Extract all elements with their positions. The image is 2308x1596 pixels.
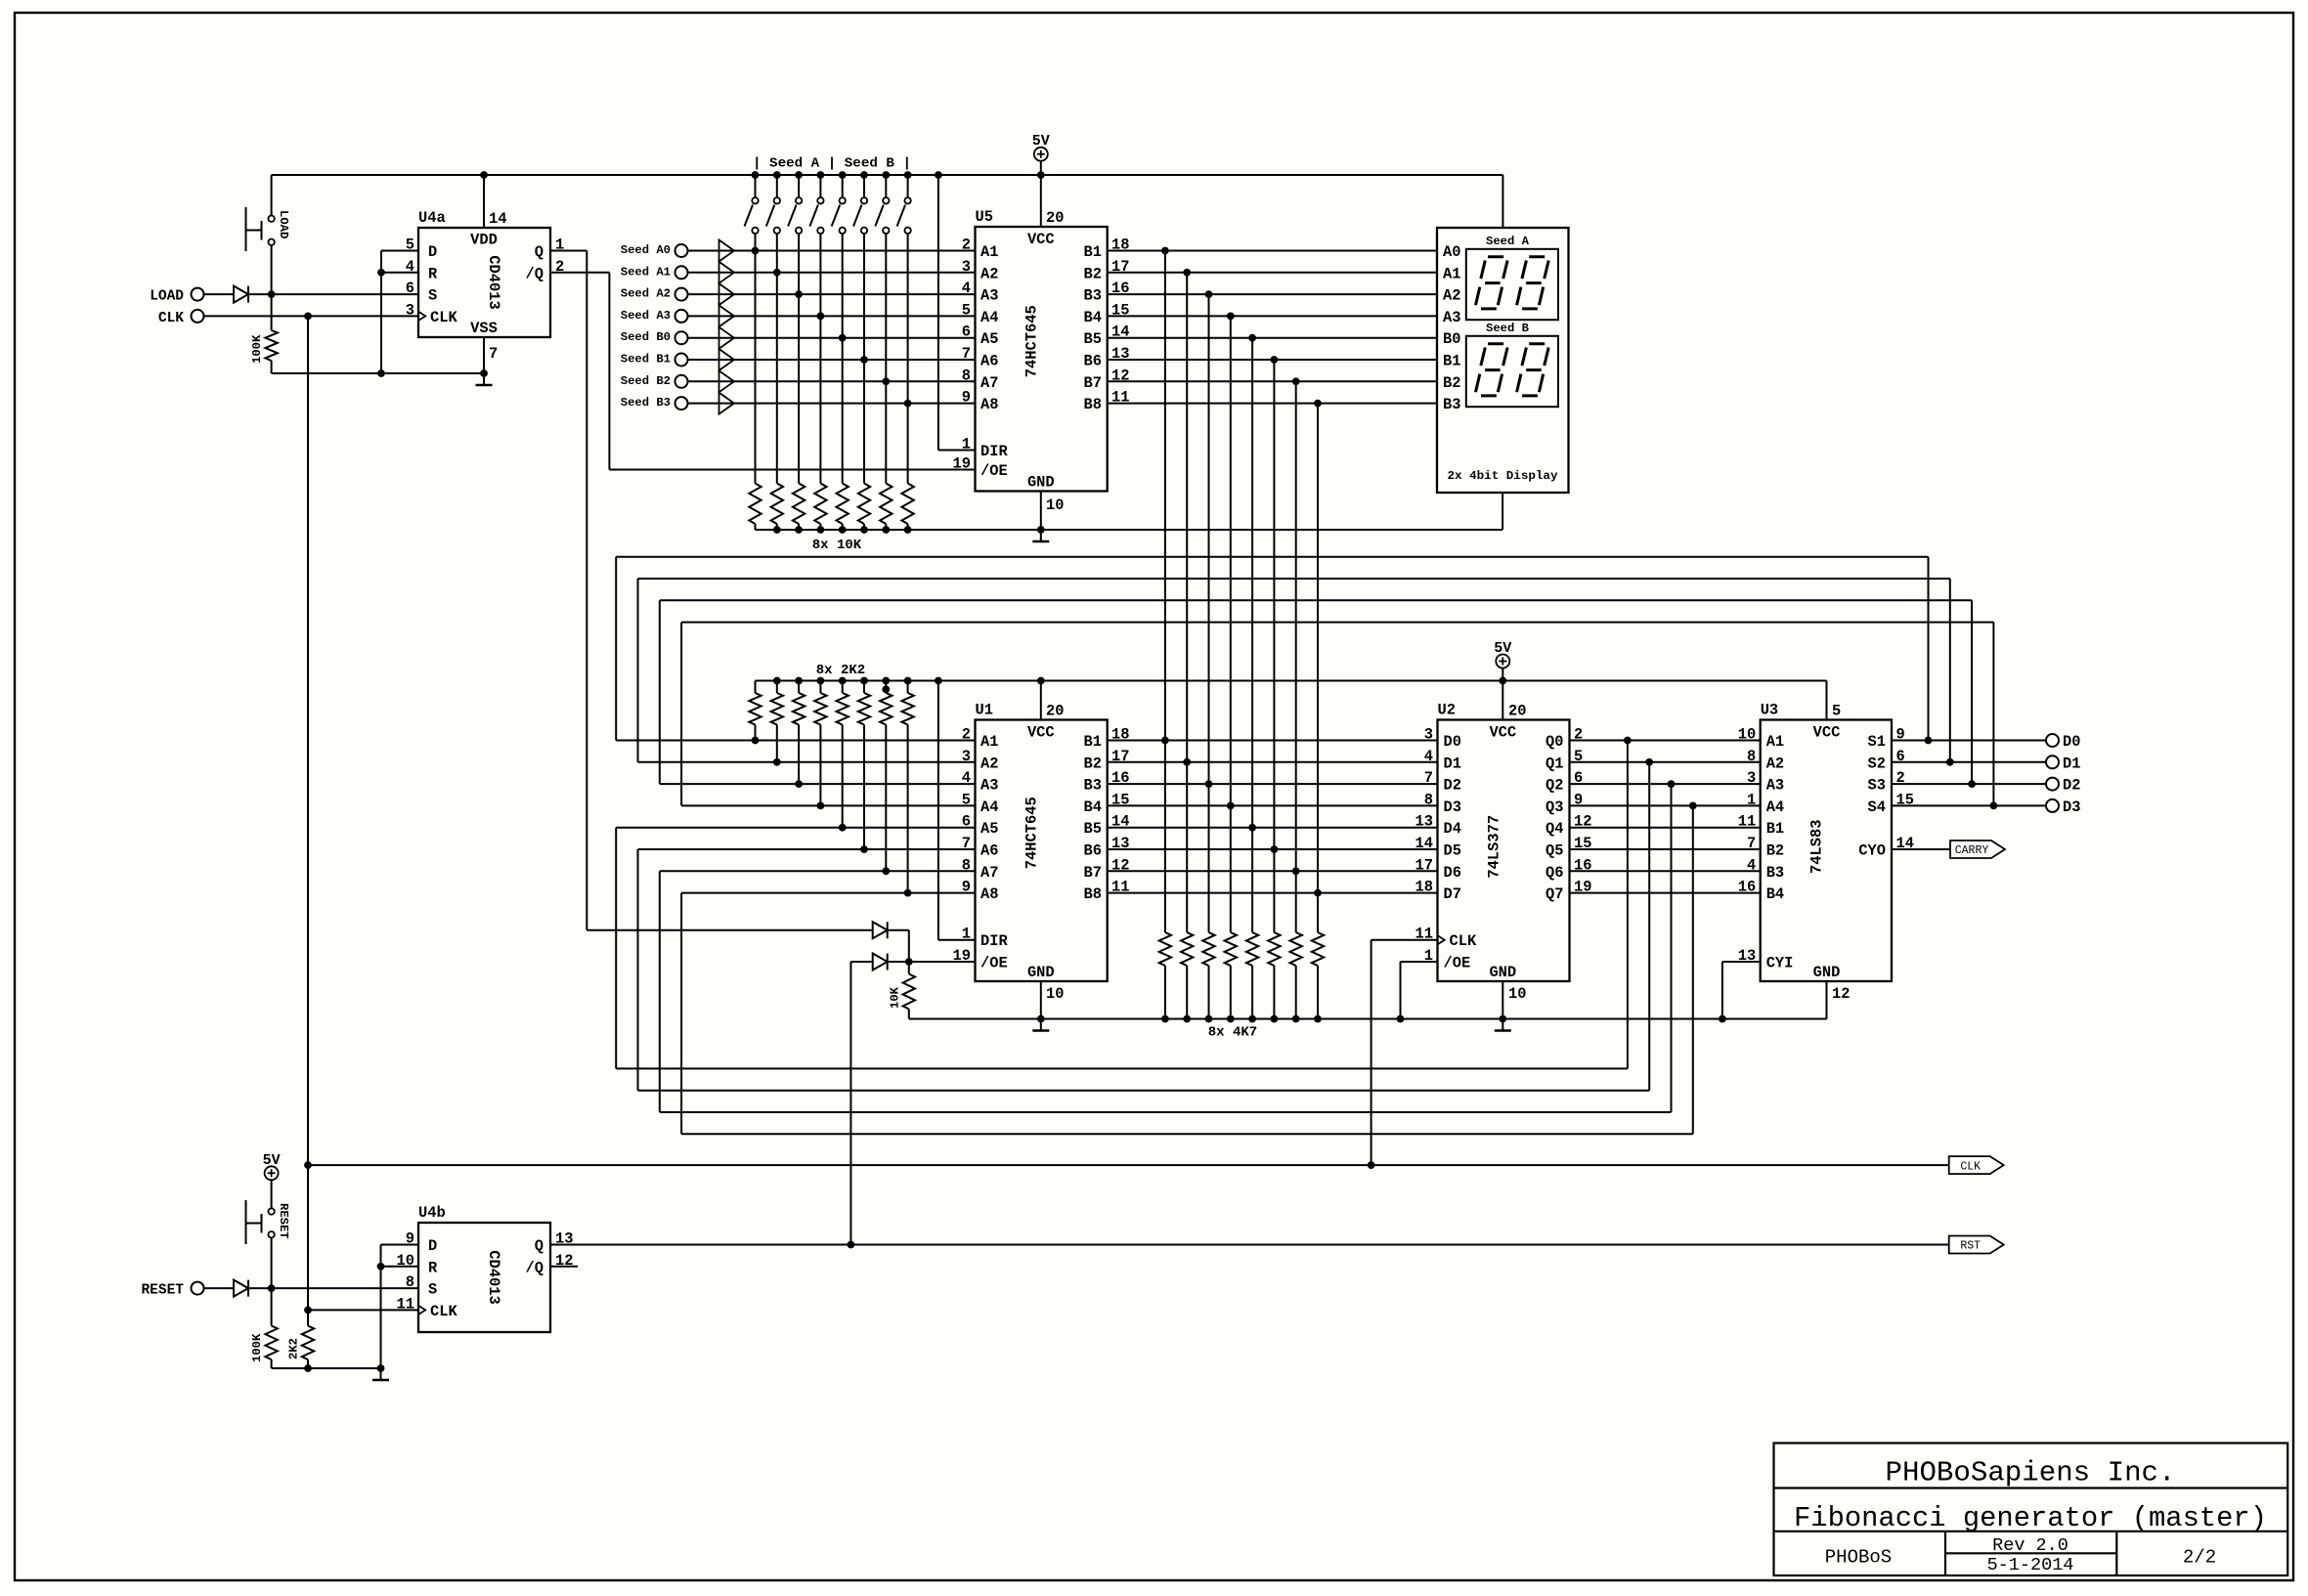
wire U3 VCC pin	[1826, 681, 1828, 720]
junction U1 DIR rail	[935, 677, 942, 685]
wire U1 DIR riser	[937, 681, 939, 940]
junction U4a D/R to rail	[377, 369, 385, 377]
svg-text:A1: A1	[980, 733, 998, 751]
wires U1 A1-A8 rows	[616, 740, 975, 742]
svg-text:CARRY: CARRY	[1955, 844, 1989, 857]
svg-text:A0: A0	[1443, 243, 1460, 261]
wire U2 CLK	[1372, 939, 1438, 941]
junction U2 CLK to CLK line	[1368, 1161, 1375, 1169]
resistor 100K (U4b)	[271, 1288, 273, 1325]
svg-text:/OE: /OE	[980, 955, 1008, 972]
power 5V supply reset	[265, 1166, 279, 1180]
svg-text:GND: GND	[1027, 964, 1055, 981]
svg-text:B3: B3	[1443, 396, 1460, 413]
port RESET input	[192, 1282, 204, 1295]
ic U1 74HCT645	[976, 720, 1108, 982]
svg-text:D7: D7	[1444, 885, 1461, 903]
ic U4a CD4013	[418, 228, 550, 337]
wire LOAD to diode	[204, 293, 234, 295]
wires U5 B1-B8 to display	[1108, 250, 1437, 252]
svg-text:5V: 5V	[1032, 133, 1050, 150]
svg-text:A4: A4	[980, 798, 998, 816]
svg-text:3: 3	[962, 258, 971, 276]
junction U5 GND	[1037, 526, 1045, 534]
svg-text:CLK: CLK	[1450, 932, 1477, 950]
svg-text:100K: 100K	[250, 1333, 264, 1362]
junction U2 GND	[1499, 1015, 1506, 1023]
svg-text:RESET: RESET	[141, 1283, 184, 1299]
svg-text:D6: D6	[1444, 864, 1461, 882]
junction 5V/U2 VCC	[1499, 677, 1506, 685]
svg-text:11: 11	[397, 1295, 414, 1313]
junction 5V rail/U5 VCC	[1037, 171, 1045, 179]
wire U2 GND pin	[1502, 981, 1503, 1019]
svg-text:Seed B0: Seed B0	[621, 330, 671, 344]
svg-text:Q0: Q0	[1546, 733, 1563, 751]
svg-text:B8: B8	[1084, 396, 1102, 413]
svg-text:74HCT645: 74HCT645	[1023, 305, 1041, 377]
svg-text:7: 7	[1747, 835, 1756, 852]
svg-text:B3: B3	[1766, 864, 1784, 882]
svg-text:12: 12	[1832, 985, 1850, 1003]
svg-text:PHOBoSapiens Inc.: PHOBoSapiens Inc.	[1886, 1457, 2176, 1489]
ic U2 74LS377	[1438, 720, 1570, 982]
svg-text:A3: A3	[980, 287, 998, 305]
svg-text:1: 1	[1747, 791, 1756, 808]
junction U4b D/R gnd	[377, 1364, 385, 1372]
wire U1 VCC pin	[1040, 681, 1042, 720]
svg-text:| Seed A | Seed B |: | Seed A | Seed B |	[753, 156, 911, 172]
svg-text:8: 8	[1747, 748, 1756, 765]
svg-text:5: 5	[406, 237, 414, 254]
svg-text:10: 10	[1508, 985, 1526, 1003]
resistor 100K (U4a)	[271, 294, 273, 330]
svg-text:6: 6	[406, 280, 414, 297]
stray junction dot	[882, 686, 890, 694]
svg-text:1: 1	[962, 926, 971, 943]
ground U4b	[380, 1368, 382, 1380]
svg-text:A1: A1	[1443, 265, 1460, 282]
wire U3 CYI	[1722, 961, 1761, 963]
svg-text:Rev 2.0: Rev 2.0	[1992, 1535, 2068, 1556]
svg-text:RST: RST	[1960, 1240, 1981, 1253]
wire display VCC drop	[1502, 175, 1503, 228]
svg-text:S3: S3	[1868, 777, 1886, 795]
wire CLK input to U4a CLK	[204, 315, 418, 317]
wire diode1 to /OE net	[888, 929, 909, 931]
svg-text:8x 10K: 8x 10K	[812, 538, 862, 553]
buffer triangles seed inputs	[719, 240, 735, 262]
svg-text:LOAD: LOAD	[150, 289, 184, 305]
svg-text:/OE: /OE	[1444, 955, 1471, 972]
svg-text:3: 3	[1747, 769, 1756, 787]
svg-text:A7: A7	[980, 374, 998, 392]
svg-text:VDD: VDD	[470, 232, 498, 249]
svg-text:Seed B1: Seed B1	[621, 353, 671, 367]
svg-text:5V: 5V	[1494, 640, 1511, 657]
svg-text:R: R	[428, 1259, 438, 1276]
title block	[1774, 1444, 2288, 1576]
power 5V supply top	[1034, 148, 1048, 161]
svg-text:3: 3	[1424, 726, 1433, 744]
svg-text:Q: Q	[535, 1237, 544, 1255]
svg-text:8: 8	[406, 1273, 414, 1291]
svg-text:CLK: CLK	[430, 1303, 457, 1320]
svg-text:D4: D4	[1444, 820, 1461, 838]
junction RESET/button/100K	[268, 1284, 276, 1292]
junction LOAD/button/100K	[268, 290, 276, 298]
svg-text:11: 11	[1738, 813, 1756, 831]
svg-text:10K: 10K	[889, 986, 902, 1009]
svg-text:9: 9	[406, 1230, 414, 1248]
svg-text:5: 5	[1832, 703, 1841, 720]
power 5V supply mid	[1496, 655, 1509, 669]
junction U4b CLK	[304, 1307, 312, 1315]
junction U5 DIR rail	[935, 171, 942, 179]
svg-text:D0: D0	[1444, 733, 1461, 751]
wire CLK vertical bus	[307, 316, 309, 1310]
svg-text:B3: B3	[1084, 287, 1102, 305]
svg-text:/Q: /Q	[526, 1259, 544, 1276]
svg-text:B1: B1	[1443, 353, 1460, 370]
svg-text:Fibonacci generator (master): Fibonacci generator (master)	[1794, 1502, 2267, 1534]
svg-text:B5: B5	[1084, 820, 1102, 838]
svg-text:B1: B1	[1084, 243, 1102, 261]
svg-text:2: 2	[962, 237, 971, 254]
svg-text:Q7: Q7	[1546, 885, 1563, 903]
svg-text:7: 7	[489, 345, 498, 363]
ic U3 74LS83	[1761, 720, 1892, 982]
diode D1 (load enable)	[873, 922, 888, 938]
svg-text:14: 14	[489, 210, 506, 228]
wire U5 VCC pin	[1040, 175, 1042, 227]
svg-text:A6: A6	[980, 842, 998, 860]
diode D-LOAD	[234, 286, 248, 303]
svg-text:Q5: Q5	[1546, 842, 1563, 860]
svg-text:D: D	[428, 1237, 437, 1255]
svg-text:100K: 100K	[250, 334, 264, 364]
svg-text:VCC: VCC	[1027, 231, 1055, 248]
svg-text:Seed A0: Seed A0	[621, 243, 671, 257]
svg-text:B4: B4	[1084, 309, 1102, 326]
junction /OE net	[905, 958, 913, 966]
svg-text:74HCT645: 74HCT645	[1023, 797, 1041, 869]
wire VCC rail mid	[756, 680, 1827, 682]
junction VDD rail	[480, 171, 488, 179]
wire diode2 to U1 /OE	[888, 961, 976, 963]
svg-text:A2: A2	[980, 265, 998, 282]
svg-text:14: 14	[1415, 835, 1433, 852]
svg-text:B3: B3	[1084, 777, 1102, 795]
svg-text:CYO: CYO	[1858, 842, 1886, 860]
svg-text:VCC: VCC	[1813, 724, 1841, 742]
pushbutton RESET	[268, 1208, 274, 1214]
wire U4b gnd rail	[272, 1367, 381, 1369]
svg-text:GND: GND	[1489, 964, 1516, 981]
wire RESET button to S row	[271, 1237, 273, 1288]
wire display gnd drop	[1502, 493, 1503, 530]
svg-text:B0: B0	[1443, 330, 1460, 348]
wire RESET to diode	[204, 1287, 234, 1289]
svg-text:4: 4	[1424, 748, 1433, 765]
svg-text:A3: A3	[1766, 777, 1784, 795]
svg-text:GND: GND	[1813, 964, 1841, 981]
svg-text:16: 16	[1738, 879, 1756, 896]
port LOAD input	[192, 288, 204, 301]
junction RST/diode2 riser	[848, 1241, 855, 1249]
wire diode to U4b S	[248, 1287, 418, 1289]
svg-text:A1: A1	[1766, 733, 1784, 751]
svg-text:DIR: DIR	[980, 932, 1008, 950]
switch bank SW1-SW8 Seed A/B	[752, 171, 760, 179]
svg-text:B8: B8	[1084, 885, 1102, 903]
ports D0-D3 outputs	[1892, 740, 2046, 742]
svg-text:Q6: Q6	[1546, 864, 1563, 882]
svg-text:GND: GND	[1027, 474, 1055, 492]
svg-text:S1: S1	[1868, 733, 1886, 751]
svg-text:4: 4	[1747, 856, 1756, 874]
wire gnd rail lower	[909, 1018, 1827, 1020]
svg-text:Seed B3: Seed B3	[621, 396, 671, 410]
wire U4a R stub	[381, 272, 418, 274]
junction U4a VSS to rail	[480, 369, 488, 377]
svg-text:13: 13	[1415, 813, 1433, 831]
svg-text:CLK: CLK	[1960, 1160, 1981, 1173]
wire U4a D loop	[381, 250, 418, 252]
svg-text:S: S	[428, 1281, 437, 1299]
ports Seed A0-B3 inputs	[675, 244, 688, 257]
svg-text:A7: A7	[980, 864, 998, 882]
svg-text:B1: B1	[1766, 820, 1784, 838]
svg-text:8x 2K2: 8x 2K2	[816, 663, 865, 678]
svg-text:VCC: VCC	[1027, 724, 1055, 742]
wire U4a VSS pin	[483, 337, 485, 373]
wire U5 GND pin	[1040, 492, 1042, 531]
svg-text:B4: B4	[1766, 885, 1784, 903]
wire U2 VCC pin	[1502, 681, 1503, 720]
svg-text:2x 4bit Display: 2x 4bit Display	[1448, 469, 1559, 483]
svg-text:S4: S4	[1868, 798, 1886, 816]
svg-text:Seed B: Seed B	[1486, 322, 1530, 335]
svg-text:A5: A5	[980, 330, 998, 348]
wire U4a.Q to diode1	[587, 929, 872, 931]
svg-text:10: 10	[1046, 496, 1064, 514]
svg-text:D2: D2	[1444, 777, 1461, 795]
svg-text:D5: D5	[1444, 842, 1461, 860]
wire U1 GND pin	[1040, 981, 1042, 1019]
svg-text:A2: A2	[1766, 755, 1784, 772]
svg-text:Q3: Q3	[1546, 798, 1563, 816]
wires S1-S4 feedback wrap	[1928, 557, 1930, 741]
svg-text:Q2: Q2	[1546, 777, 1563, 795]
wire U2 /OE	[1401, 961, 1438, 963]
junction CLK line start	[304, 1161, 312, 1169]
svg-text:U1: U1	[976, 702, 993, 719]
svg-text:B7: B7	[1084, 374, 1102, 392]
svg-text:B2: B2	[1084, 755, 1102, 772]
svg-text:20: 20	[1046, 209, 1064, 227]
svg-text:10: 10	[1046, 985, 1064, 1003]
svg-text:6: 6	[962, 324, 971, 341]
svg-text:B7: B7	[1084, 864, 1102, 882]
svg-text:B2: B2	[1443, 374, 1460, 392]
svg-text:A4: A4	[1766, 798, 1784, 816]
svg-text:U4b: U4b	[418, 1204, 446, 1222]
svg-text:/OE: /OE	[980, 462, 1008, 480]
svg-text:A1: A1	[980, 243, 998, 261]
junction U2 /OE gnd	[1397, 1015, 1405, 1023]
svg-text:A4: A4	[980, 309, 998, 326]
wire RST line (U4b.Q)	[550, 1244, 1949, 1246]
svg-text:19: 19	[953, 455, 971, 473]
ground U4a	[483, 373, 485, 385]
svg-text:9: 9	[962, 389, 971, 407]
svg-text:U4a: U4a	[418, 209, 446, 227]
wire U4a /Q to riser	[550, 272, 609, 274]
bus verticals + resistor bank 8x 4K7	[1164, 251, 1166, 933]
svg-text:D1: D1	[2063, 755, 2080, 772]
wire gnd rail U5	[756, 529, 1503, 531]
wires bus U1.B to U2.D	[1108, 740, 1438, 742]
svg-text:A2: A2	[980, 755, 998, 772]
pushbutton LOAD	[268, 216, 274, 222]
junction U1 GND	[1037, 1015, 1045, 1023]
svg-text:74LS83: 74LS83	[1807, 820, 1825, 874]
diode D2 (reset enable)	[873, 954, 888, 971]
wires U2.Q to U3 inputs	[1570, 740, 1761, 742]
svg-text:5: 5	[962, 301, 971, 319]
svg-text:7: 7	[962, 345, 971, 363]
wire CYO to CARRY	[1892, 848, 1950, 850]
svg-text:U5: U5	[976, 208, 993, 226]
svg-text:8x 4K7: 8x 4K7	[1208, 1025, 1257, 1041]
svg-text:D0: D0	[2063, 733, 2080, 751]
port CLK input	[192, 310, 204, 323]
wire U4b /Q stub	[550, 1266, 578, 1268]
junction U4a R	[377, 269, 385, 277]
resistor 2K2 (U4b CLK)	[307, 1310, 309, 1325]
svg-text:CLK: CLK	[158, 311, 184, 326]
ground U2	[1502, 1019, 1503, 1031]
svg-text:S2: S2	[1868, 755, 1886, 772]
svg-text:20: 20	[1508, 703, 1526, 720]
wire U5 DIR riser	[937, 175, 939, 451]
svg-text:A3: A3	[980, 777, 998, 795]
diode D-RESET	[234, 1280, 248, 1297]
junction U1 VCC	[1037, 677, 1045, 685]
wire U4a gnd rail	[272, 372, 484, 374]
svg-text:Seed A2: Seed A2	[621, 287, 671, 301]
wire diode to U4a S	[248, 293, 418, 295]
svg-text:Q4: Q4	[1546, 820, 1563, 838]
wires Q0-Q3 feedback wrap	[1627, 741, 1629, 1069]
svg-text:R: R	[428, 265, 438, 282]
svg-text:A5: A5	[980, 820, 998, 838]
svg-text:VSS: VSS	[470, 320, 498, 337]
svg-text:PHOBoS: PHOBoS	[1825, 1547, 1892, 1569]
svg-text:D3: D3	[2063, 798, 2080, 816]
svg-text:LOAD: LOAD	[277, 210, 290, 238]
wire U3 GND pin	[1826, 981, 1828, 1019]
svg-text:2/2: 2/2	[2183, 1547, 2216, 1569]
svg-text:13: 13	[555, 1230, 573, 1248]
svg-text:2K2: 2K2	[287, 1338, 301, 1359]
svg-text:D2: D2	[2063, 777, 2080, 795]
resistor bank 8x 2K2	[755, 681, 757, 694]
junction 2K2 gnd	[304, 1364, 312, 1372]
svg-text:CLK: CLK	[430, 309, 457, 326]
svg-text:/Q: /Q	[526, 265, 544, 282]
svg-text:17: 17	[1415, 856, 1433, 874]
svg-text:B4: B4	[1084, 798, 1102, 816]
svg-text:A8: A8	[980, 396, 998, 413]
svg-text:A3: A3	[1443, 309, 1460, 326]
svg-text:A2: A2	[1443, 287, 1460, 305]
wire 5V top rail	[272, 174, 1503, 176]
svg-text:5V: 5V	[263, 1152, 281, 1169]
svg-text:10: 10	[397, 1252, 414, 1270]
ground U1	[1040, 1019, 1042, 1031]
svg-text:S: S	[428, 287, 437, 305]
svg-text:DIR: DIR	[980, 443, 1008, 460]
svg-text:8: 8	[1424, 791, 1433, 808]
svg-text:18: 18	[1415, 879, 1433, 896]
ground U5	[1040, 530, 1042, 541]
svg-text:B6: B6	[1084, 353, 1102, 370]
svg-text:20: 20	[1046, 703, 1064, 720]
svg-text:B5: B5	[1084, 330, 1102, 348]
svg-text:D3: D3	[1444, 798, 1461, 816]
svg-text:Seed B2: Seed B2	[621, 374, 671, 388]
flag CLK output	[1949, 1156, 2004, 1174]
svg-text:CYI: CYI	[1766, 955, 1794, 972]
junction CLK branch	[304, 313, 312, 321]
svg-text:10: 10	[1738, 726, 1756, 744]
ic U4b CD4013	[418, 1223, 550, 1332]
svg-text:Q: Q	[535, 243, 544, 261]
svg-text:D: D	[428, 243, 437, 261]
svg-text:CD4013: CD4013	[485, 255, 502, 309]
svg-text:3: 3	[406, 301, 414, 319]
svg-text:Seed A: Seed A	[1486, 235, 1530, 248]
svg-text:RESET: RESET	[277, 1203, 290, 1239]
svg-text:74LS377: 74LS377	[1486, 815, 1503, 879]
svg-text:Seed A3: Seed A3	[621, 309, 671, 323]
svg-text:Seed A1: Seed A1	[621, 265, 671, 279]
junction CYI gnd	[1719, 1015, 1726, 1023]
svg-text:Q1: Q1	[1546, 755, 1563, 772]
svg-text:CD4013: CD4013	[485, 1250, 502, 1304]
flag CARRY output	[1950, 841, 2005, 858]
resistor bank 8x 10K	[749, 484, 761, 525]
svg-text:4: 4	[406, 258, 414, 276]
svg-text:B2: B2	[1766, 842, 1784, 860]
flag RST output	[1949, 1236, 2004, 1254]
resistor 10K (U1 /OE)	[908, 962, 910, 974]
svg-text:A6: A6	[980, 353, 998, 370]
wire RST riser to diode2	[849, 962, 851, 1245]
wire U4b CLK row	[308, 1309, 418, 1311]
svg-text:7: 7	[1424, 769, 1433, 787]
wire U4a Q to riser	[550, 250, 587, 252]
svg-text:5-1-2014: 5-1-2014	[1987, 1555, 2074, 1575]
display module 2x 4bit	[1437, 228, 1569, 493]
wire U4b R stub	[381, 1266, 419, 1268]
svg-text:B1: B1	[1084, 733, 1102, 751]
svg-text:A8: A8	[980, 885, 998, 903]
wire CLK line	[308, 1164, 1949, 1166]
wire LOAD button to rail	[271, 175, 273, 216]
